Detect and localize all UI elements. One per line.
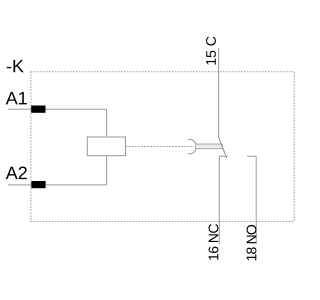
label 15 C <box>206 37 216 65</box>
NC fixed contact 16 <box>219 156 228 244</box>
enclosure dashed box <box>31 72 294 222</box>
wire A2 <box>8 184 107 186</box>
label A1 <box>6 92 27 104</box>
label 16 NC <box>209 224 219 260</box>
wire common 15 <box>218 48 220 137</box>
moving contact arm <box>219 137 227 158</box>
coupling band <box>196 144 223 149</box>
terminal A1 <box>31 106 45 113</box>
wire coil vertical <box>106 109 108 185</box>
coil K <box>87 137 125 156</box>
wire A1 <box>8 108 107 110</box>
actuator arc <box>188 139 197 153</box>
mechanical link dashed <box>126 146 195 148</box>
terminal A2 <box>31 181 45 188</box>
NO fixed contact 18 <box>247 156 256 244</box>
label 18 NO <box>247 225 257 261</box>
label -K <box>7 60 24 72</box>
label A2 <box>6 167 27 180</box>
